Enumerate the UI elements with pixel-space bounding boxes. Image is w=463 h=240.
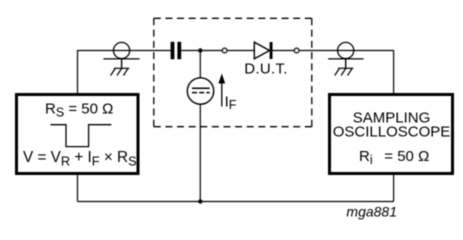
wire: right vertical drop to oscilloscope box bbox=[393, 50, 395, 94]
capacitor C (blocking capacitor) bbox=[171, 42, 182, 59]
node: junction dot on bottom bus bbox=[198, 199, 202, 203]
pulse waveform symbol bbox=[51, 125, 112, 147]
arrow: IF current direction bbox=[218, 74, 225, 107]
wire: top horizontal middle segment (capacitor to diode) bbox=[181, 50, 254, 52]
ground (chassis, right connector) bbox=[335, 68, 354, 75]
wire: bottom horizontal bus bbox=[78, 201, 394, 203]
svg-text:V = VR + IF × RS: V = VR + IF × RS bbox=[23, 149, 137, 169]
box: pulse source (left) bbox=[17, 95, 139, 174]
wire: right box bottom to ground bus bbox=[393, 174, 395, 202]
wire: top horizontal right segment (diode to right corner) bbox=[273, 50, 394, 52]
svg-text:Ri = 50 Ω: Ri = 50 Ω bbox=[359, 148, 429, 167]
diode D.U.T. bbox=[254, 42, 272, 59]
ground (chassis, left connector) bbox=[111, 68, 130, 75]
svg-text:mga881: mga881 bbox=[346, 204, 397, 220]
wire: top horizontal left segment bbox=[78, 50, 171, 52]
dashed box (test fixture) bbox=[154, 18, 312, 126]
svg-text:D.U.T.: D.U.T. bbox=[244, 61, 287, 78]
connector J1 (left coax feedthrough) bbox=[103, 42, 139, 68]
wire: left box bottom to ground bus bbox=[77, 174, 79, 202]
box: sampling oscilloscope (right) bbox=[330, 95, 453, 174]
terminal: open circle left of diode bbox=[222, 48, 227, 53]
wire: current source bottom lead bbox=[199, 104, 201, 202]
wire: current source top lead bbox=[199, 51, 201, 79]
svg-text:RS = 50 Ω: RS = 50 Ω bbox=[45, 100, 113, 119]
wire: left vertical drop to pulse source box bbox=[77, 50, 79, 94]
current source IF (DC source circle) bbox=[187, 78, 213, 104]
connector J2 (right coax feedthrough) bbox=[328, 42, 363, 68]
svg-text:OSCILLOSCOPE: OSCILLOSCOPE bbox=[333, 123, 451, 140]
node: junction dot at capacitor/current-source bbox=[198, 48, 202, 52]
terminal: open circle right of diode bbox=[294, 48, 299, 53]
